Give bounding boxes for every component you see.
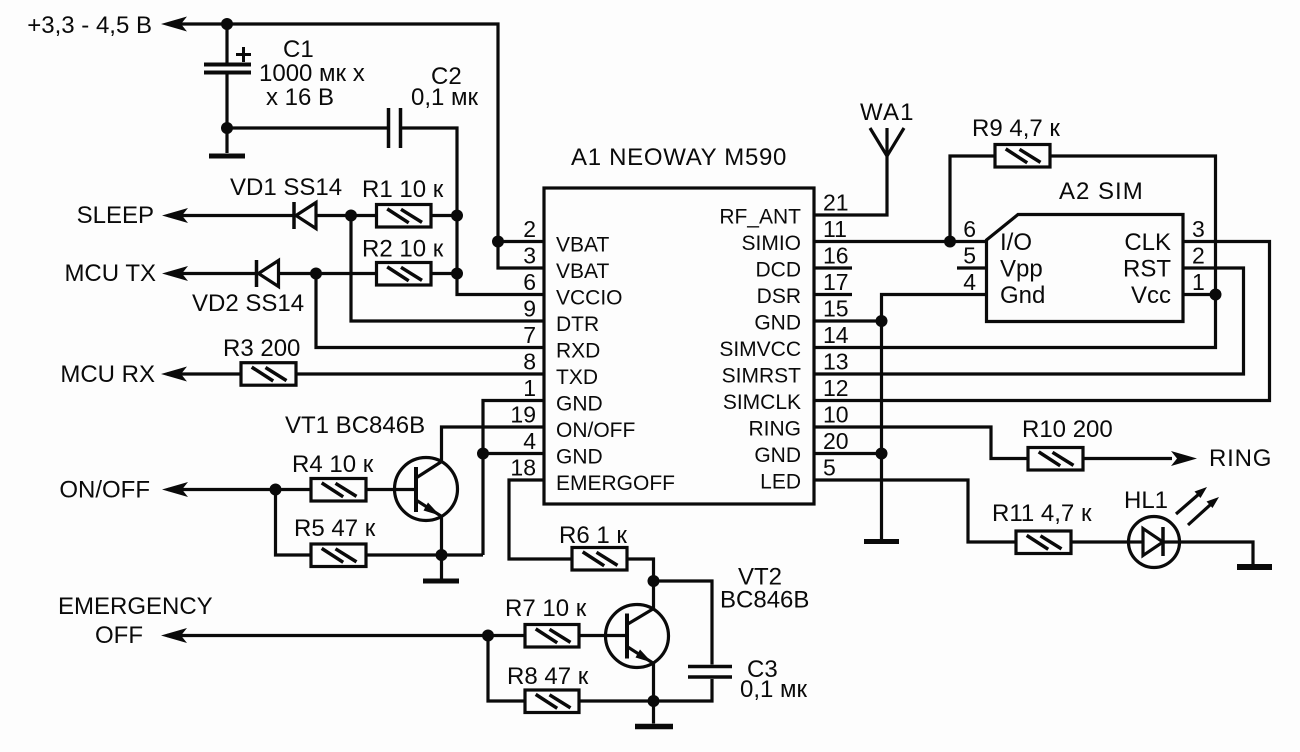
wire R9 branch [950, 156, 995, 242]
wire MCU RX to R3 [167, 372, 241, 375]
arrow EMERGENCY OFF [161, 628, 187, 643]
junction VD1-DTR node [345, 210, 357, 222]
svg-text:VT1 BC846B: VT1 BC846B [285, 412, 425, 439]
svg-text:R3 200: R3 200 [223, 335, 300, 362]
svg-text:5: 5 [963, 243, 976, 269]
wire Gnd pin4 to ground rail [882, 295, 987, 540]
svg-text:DSR: DSR [757, 285, 801, 308]
svg-text:9: 9 [523, 296, 536, 322]
diode VD2 SS14 [257, 260, 279, 287]
SIM holder A2 body [987, 215, 1184, 322]
R8 label [507, 663, 589, 690]
C3 label [740, 656, 808, 703]
svg-text:VBAT: VBAT [556, 260, 609, 283]
svg-text:MCU TX: MCU TX [64, 260, 156, 287]
svg-text:GND: GND [556, 393, 603, 416]
junction VD2-RXD node [310, 268, 322, 280]
arrow MCU TX [162, 266, 188, 281]
ground under VT2 [635, 724, 673, 730]
svg-text:1000 мк x: 1000 мк x [259, 60, 365, 87]
ground under C1 [209, 154, 245, 159]
junction VT2 emitter [648, 695, 660, 707]
svg-text:OFF: OFF [95, 622, 143, 649]
svg-text:19: 19 [510, 402, 536, 428]
wire HL1 to ground [1180, 542, 1254, 565]
svg-text:MCU RX: MCU RX [60, 361, 155, 388]
C1 value label [259, 36, 365, 111]
svg-text:SIMVCC: SIMVCC [719, 338, 801, 361]
resistor R8 [525, 690, 579, 713]
wire RING pin10 to R10 [814, 427, 1028, 459]
node MCU TX label [64, 260, 156, 287]
A2 left pin names [1000, 229, 1045, 309]
R4 label [292, 451, 374, 478]
svg-text:4: 4 [523, 428, 536, 454]
svg-text:EMERGOFF: EMERGOFF [556, 472, 675, 495]
svg-text:7: 7 [523, 322, 536, 348]
wire RST pin2 to SIMRST pin13 [814, 268, 1244, 374]
wire Vcc pin1 stub [1183, 293, 1216, 296]
svg-text:GND: GND [754, 444, 801, 467]
arrow MCU RX [161, 367, 187, 382]
A2 left pin numbers [963, 216, 976, 295]
svg-text:11: 11 [823, 216, 847, 242]
wire VT1 collector to ON/OFF pin19 [442, 427, 545, 462]
junction GND pin20 [876, 448, 888, 460]
wire Vpp pin5 stub [957, 266, 987, 269]
wire C1 top lead [225, 24, 228, 63]
wire ON/OFF to R4 [168, 488, 311, 491]
svg-text:1: 1 [523, 375, 536, 401]
svg-text:17: 17 [823, 269, 849, 295]
resistor R11 [1016, 531, 1071, 554]
wire VT1 emitter to ground [440, 555, 443, 579]
svg-text:WA1: WA1 [860, 99, 915, 126]
svg-text:R4 10 к: R4 10 к [292, 451, 374, 478]
node EMERGENCY OFF label [58, 593, 213, 649]
junction C1-C2 node [221, 122, 233, 134]
resistor R2 [377, 263, 432, 286]
svg-text:VCCIO: VCCIO [556, 287, 623, 310]
svg-text:Gnd: Gnd [1000, 282, 1045, 309]
svg-text:ON/OFF: ON/OFF [59, 477, 150, 504]
wire DCD pin16 stub [814, 266, 852, 269]
svg-text:6: 6 [963, 216, 976, 242]
svg-text:15: 15 [823, 296, 849, 322]
svg-text:EMERGENCY: EMERGENCY [58, 593, 213, 620]
wire C1 to C2 [227, 126, 387, 129]
svg-text:x 16 В: x 16 В [266, 84, 334, 111]
wire node to DTR pin9 [351, 216, 544, 322]
R1 label [362, 176, 444, 203]
R2 label [362, 236, 444, 263]
svg-text:R5 47 к: R5 47 к [294, 515, 376, 542]
svg-text:R11 4,7 к: R11 4,7 к [992, 500, 1092, 527]
wire MCU TX to VD2 [168, 272, 255, 275]
svg-text:RING: RING [749, 418, 802, 441]
wire R1 to VCC node [431, 214, 457, 217]
svg-text:C1: C1 [283, 36, 314, 63]
svg-text:RF_ANT: RF_ANT [719, 206, 801, 229]
wire R6 to VT2 collector [627, 559, 654, 609]
wire node to RXD pin7 [316, 274, 544, 348]
arrow RING right [1171, 451, 1197, 466]
svg-text:A1 NEOWAY M590: A1 NEOWAY M590 [571, 144, 787, 171]
svg-text:1: 1 [1192, 269, 1205, 295]
R5 label [294, 515, 376, 542]
wire SIMIO pin11 to SIM I/O [814, 240, 987, 243]
wire collector node to C3 [654, 581, 713, 665]
A2 right pin numbers [1192, 216, 1205, 295]
svg-text:BC846B: BC846B [720, 587, 809, 614]
svg-text:8: 8 [523, 349, 536, 375]
HL1 label [1124, 487, 1168, 514]
diode VD1 SS14 [294, 202, 316, 229]
ground under VT1 [423, 579, 459, 584]
node MCU RX label [60, 361, 155, 388]
wire C3 bottom to emitter node [654, 679, 713, 701]
svg-text:R6 1 к: R6 1 к [559, 522, 627, 549]
node RING label [1209, 445, 1272, 472]
svg-text:ON/OFF: ON/OFF [556, 419, 635, 442]
svg-text:2: 2 [1192, 243, 1205, 269]
wire VD1 to R1 [316, 214, 377, 217]
antenna WA1 [870, 128, 904, 156]
junction VT1 emitter [436, 549, 448, 561]
svg-text:GND: GND [754, 312, 801, 335]
wire VT2 emitter to ground [652, 701, 655, 724]
svg-text:14: 14 [823, 322, 849, 348]
wire EMERGENCY OFF to R7 [167, 634, 525, 637]
svg-text:Vcc: Vcc [1131, 282, 1171, 309]
wire CLK pin3 to SIMCLK pin12 [814, 242, 1270, 401]
A2 title [1059, 178, 1144, 205]
junction R2-VCC [451, 268, 463, 280]
junction Vcc pin1 [1210, 289, 1222, 301]
svg-text:VD1 SS14: VD1 SS14 [230, 174, 342, 201]
VT1 label [285, 412, 425, 439]
svg-text:R9 4,7 к: R9 4,7 к [972, 115, 1060, 142]
wire R11 to HL1 [1071, 540, 1129, 543]
resistor R6 [572, 548, 627, 571]
R9 label [972, 115, 1060, 142]
wire RF_ANT pin21 to antenna [814, 156, 887, 215]
wire VBAT pin2 stub [498, 240, 544, 243]
R7 label [505, 595, 587, 622]
svg-text:R2 10 к: R2 10 к [362, 236, 444, 263]
capacitor C1 [204, 47, 251, 73]
R10 label [1022, 416, 1113, 443]
svg-text:6: 6 [523, 269, 536, 295]
wire R5 branch [276, 490, 312, 556]
node SLEEP label [77, 202, 154, 229]
ground right of HL1 [1237, 564, 1272, 570]
svg-text:10: 10 [823, 402, 849, 428]
resistor R9 [995, 145, 1050, 168]
wire R4 to VT1 base [366, 488, 416, 491]
svg-text:0,1 мк: 0,1 мк [740, 676, 808, 703]
VD2 label [192, 290, 304, 317]
A1 title [571, 144, 787, 171]
svg-text:VBAT: VBAT [556, 234, 609, 257]
svg-text:+3,3 - 4,5 В: +3,3 - 4,5 В [27, 12, 152, 39]
node +3,3 - 4,5 V supply label [27, 12, 152, 39]
svg-text:SIMRST: SIMRST [722, 365, 802, 388]
wire R7 to VT2 base [579, 634, 627, 637]
svg-text:13: 13 [823, 349, 849, 375]
svg-text:12: 12 [823, 375, 849, 401]
svg-text:CLK: CLK [1124, 229, 1171, 256]
capacitor C3 [688, 667, 732, 678]
svg-text:3: 3 [1192, 216, 1205, 242]
A1 right pin numbers [823, 190, 849, 481]
svg-text:HL1: HL1 [1124, 487, 1168, 514]
junction VT2 collector C3 [648, 575, 660, 587]
junction VBAT pin2 [492, 236, 504, 248]
wire VD2 to R2 [279, 272, 377, 275]
svg-text:RXD: RXD [556, 340, 600, 363]
junction EMERGOFF-R8 [482, 630, 494, 642]
HL1 light arrows [1176, 487, 1219, 525]
svg-text:4: 4 [963, 269, 976, 295]
capacitor C2 [389, 108, 401, 148]
wire DSR pin17 stub [814, 293, 852, 296]
svg-text:SIMIO: SIMIO [741, 232, 801, 255]
wire R9 to Vcc rail [814, 156, 1216, 348]
transistor VT2 BC846B [606, 605, 669, 668]
svg-text:20: 20 [823, 428, 849, 454]
wire GND pin1 to emitter rail [483, 401, 544, 556]
A1 right pin names [719, 206, 801, 494]
A1 left pin numbers [510, 216, 536, 481]
wire GND pin15 stub [814, 319, 882, 322]
wire C1 bottom lead [225, 74, 228, 153]
VT2 label [720, 564, 809, 614]
wire R8 to emitter junction [579, 699, 654, 702]
R3 label [223, 335, 300, 362]
resistor R5 [311, 544, 366, 567]
svg-text:3: 3 [523, 243, 536, 269]
svg-text:R1 10 к: R1 10 к [362, 176, 444, 203]
svg-text:DTR: DTR [556, 313, 599, 336]
arrow SLEEP [162, 208, 188, 223]
VD1 label [230, 174, 342, 201]
resistor R4 [311, 479, 366, 502]
svg-text:SLEEP: SLEEP [77, 202, 154, 229]
svg-text:DCD: DCD [756, 259, 802, 282]
svg-text:R10 200: R10 200 [1022, 416, 1113, 443]
transistor VT1 BC846B [395, 458, 458, 521]
svg-text:TXD: TXD [556, 366, 598, 389]
resistor R10 [1028, 448, 1083, 471]
LED HL1 [1129, 517, 1180, 568]
C2 value label [411, 63, 479, 111]
junction supply-C1 [221, 18, 233, 30]
WA1 label [860, 99, 915, 126]
svg-text:2: 2 [523, 216, 536, 242]
wire R8 branch [488, 636, 525, 702]
arrow supply left [161, 17, 187, 32]
junction ON/OFF-R5 [270, 484, 282, 496]
svg-text:R7 10 к: R7 10 к [505, 595, 587, 622]
svg-text:R8 47 к: R8 47 к [507, 663, 589, 690]
svg-text:GND: GND [556, 446, 603, 469]
wire C2 to VCCIO [402, 128, 544, 295]
svg-text:Vpp: Vpp [1000, 256, 1043, 283]
wire R10 to RING arrow [1083, 457, 1172, 460]
A1 left pin names [556, 234, 675, 496]
junction GND pin4 [477, 448, 489, 460]
ground under GND rail [864, 539, 899, 544]
svg-text:RING: RING [1209, 445, 1272, 472]
svg-text:I/O: I/O [1000, 229, 1032, 256]
junction GND pin15 [876, 315, 888, 327]
wire R3 to TXD pin8 [296, 372, 544, 375]
wire SLEEP to VD1 [168, 214, 293, 217]
IC A1 NEOWAY M590 body [544, 188, 814, 504]
svg-text:A2 SIM: A2 SIM [1059, 178, 1144, 205]
wire EMERGOFF pin18 to R6 [509, 480, 572, 559]
svg-text:LED: LED [760, 471, 801, 494]
resistor R3 [241, 363, 296, 386]
junction R1-VCC [451, 210, 463, 222]
arrow ON/OFF [162, 482, 188, 497]
junction SIMIO-R9 [944, 236, 956, 248]
resistor R1 [377, 205, 432, 228]
wire VT2 emitter down [652, 663, 655, 701]
wire VT1 emitter down [440, 516, 443, 555]
wire supply rail top [168, 24, 544, 268]
svg-text:VD2 SS14: VD2 SS14 [192, 290, 304, 317]
svg-text:SIMCLK: SIMCLK [723, 391, 801, 414]
wire LED pin5 to R11 [814, 480, 1016, 542]
wire GND pin20 stub [814, 452, 882, 455]
wire R2 to VCC node [431, 272, 457, 275]
wire GND pin4 stub [483, 452, 544, 455]
node ON/OFF label [59, 477, 150, 504]
svg-text:0,1 мк: 0,1 мк [411, 84, 479, 111]
wire R5 to emitter junction [366, 553, 483, 556]
svg-text:5: 5 [823, 455, 836, 481]
svg-text:16: 16 [823, 243, 849, 269]
svg-text:RST: RST [1123, 256, 1171, 283]
resistor R7 [525, 625, 579, 648]
R6 label [559, 522, 627, 549]
svg-text:21: 21 [823, 190, 849, 216]
A2 right pin names [1123, 229, 1171, 309]
R11 label [992, 500, 1092, 527]
svg-text:18: 18 [510, 455, 536, 481]
